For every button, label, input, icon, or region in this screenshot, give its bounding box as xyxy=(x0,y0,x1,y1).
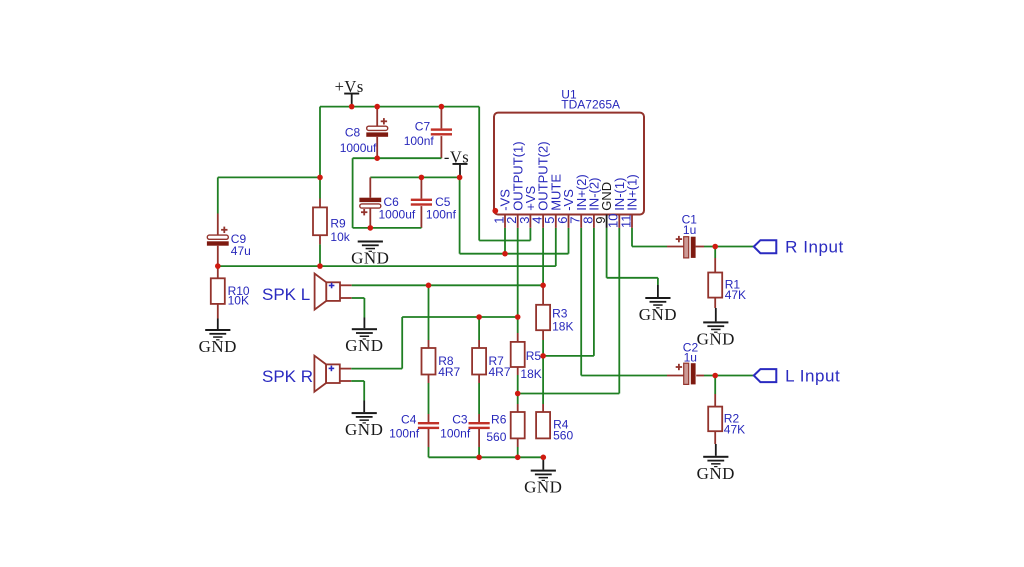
svg-text:+Vs: +Vs xyxy=(335,77,364,96)
svg-text:L Input: L Input xyxy=(785,367,840,386)
svg-text:10k: 10k xyxy=(330,230,350,244)
svg-text:GND: GND xyxy=(199,337,237,356)
svg-text:11: 11 xyxy=(618,215,633,229)
svg-text:560: 560 xyxy=(553,429,573,443)
svg-text:100nf: 100nf xyxy=(389,427,420,441)
svg-text:R6: R6 xyxy=(491,413,507,427)
svg-text:GND: GND xyxy=(697,329,735,348)
svg-text:GND: GND xyxy=(345,420,383,439)
svg-text:GND: GND xyxy=(351,249,389,268)
svg-text:GND: GND xyxy=(639,305,677,324)
svg-text:1u: 1u xyxy=(683,223,696,237)
svg-text:R9: R9 xyxy=(330,217,346,231)
svg-text:-Vs: -Vs xyxy=(444,147,469,166)
svg-text:SPK L: SPK L xyxy=(262,285,310,304)
svg-text:18K: 18K xyxy=(552,320,573,334)
svg-text:TDA7265A: TDA7265A xyxy=(561,98,620,112)
svg-text:47u: 47u xyxy=(231,244,251,258)
svg-text:SPK R: SPK R xyxy=(262,367,313,386)
svg-text:1u: 1u xyxy=(684,351,697,365)
svg-text:C3: C3 xyxy=(452,413,468,427)
svg-text:100nf: 100nf xyxy=(404,134,435,148)
svg-text:R3: R3 xyxy=(552,307,568,321)
svg-text:4R7: 4R7 xyxy=(489,365,511,379)
svg-text:C8: C8 xyxy=(345,126,361,140)
svg-text:100nf: 100nf xyxy=(440,427,471,441)
svg-text:10K: 10K xyxy=(228,294,249,308)
svg-text:GND: GND xyxy=(524,478,562,497)
svg-text:1000uf: 1000uf xyxy=(340,141,377,155)
svg-text:GND: GND xyxy=(345,336,383,355)
svg-text:100nf: 100nf xyxy=(426,208,457,222)
svg-text:1000uf: 1000uf xyxy=(379,208,416,222)
svg-text:GND: GND xyxy=(697,464,735,483)
svg-text:47K: 47K xyxy=(724,422,745,436)
svg-text:C7: C7 xyxy=(415,119,431,133)
svg-text:R Input: R Input xyxy=(785,238,844,257)
svg-text:IN+(1): IN+(1) xyxy=(625,174,640,210)
svg-text:4R7: 4R7 xyxy=(438,365,460,379)
svg-text:560: 560 xyxy=(486,430,506,444)
svg-text:47K: 47K xyxy=(725,288,746,302)
svg-text:C4: C4 xyxy=(401,413,417,427)
svg-text:18K: 18K xyxy=(520,367,541,381)
svg-text:R5: R5 xyxy=(526,349,542,363)
